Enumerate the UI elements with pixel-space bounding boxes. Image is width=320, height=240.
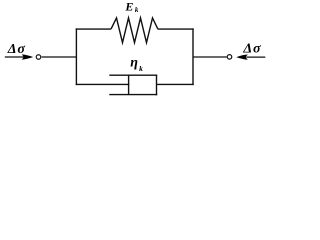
wire top branch right (158, 28, 194, 30)
label Ek (124, 0, 138, 14)
dashpot cylinder bottom wall (109, 94, 157, 96)
wire loop to right terminal (193, 56, 227, 58)
wire left terminal to loop (42, 56, 77, 58)
node right terminal circle (227, 55, 232, 60)
wire left vertical of parallel loop (75, 28, 77, 85)
wire top branch left (76, 28, 111, 30)
svg-text:k: k (139, 64, 143, 73)
wire right vertical of parallel loop (192, 28, 194, 85)
dashpot cylinder top wall (109, 74, 157, 76)
svg-text:E: E (124, 0, 133, 14)
arrow left applied stress (5, 54, 33, 59)
dashpot cylinder right wall (156, 75, 158, 96)
wire bottom branch right (cylinder to loop) (157, 83, 194, 85)
spring Ek zigzag (111, 18, 158, 43)
wire bottom branch left (dashpot piston rod) (76, 83, 130, 85)
arrow right applied stress (236, 55, 265, 60)
svg-text:Δσ: Δσ (242, 41, 261, 56)
dashpot piston plate (128, 75, 130, 94)
node left terminal circle (36, 55, 41, 60)
label eta-k (130, 56, 143, 73)
svg-text:η: η (130, 56, 138, 71)
svg-text:k: k (135, 6, 139, 14)
